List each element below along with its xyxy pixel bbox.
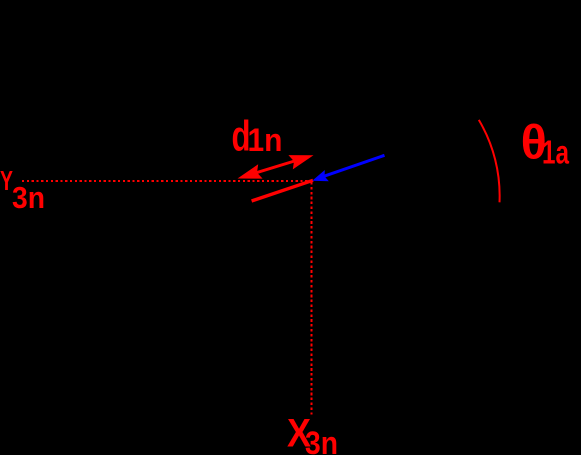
- svg-text:3n: 3n: [12, 180, 45, 215]
- svg-text:3n: 3n: [305, 425, 338, 455]
- svg-text:1n: 1n: [248, 122, 283, 158]
- svg-text:1a: 1a: [542, 133, 569, 170]
